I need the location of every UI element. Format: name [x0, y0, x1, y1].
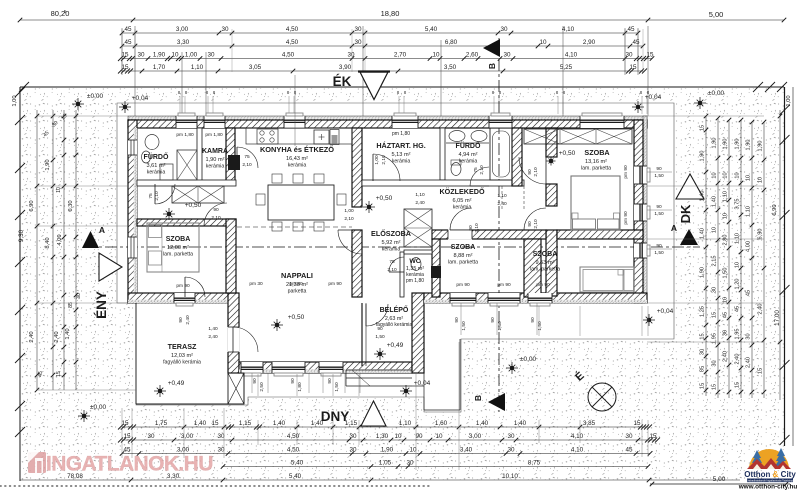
svg-text:2,40: 2,40 [208, 334, 218, 340]
svg-text:+0,50: +0,50 [288, 314, 305, 321]
top dimension row 1 [122, 32, 638, 34]
svg-text:2,40: 2,40 [29, 331, 35, 342]
svg-text:30: 30 [625, 433, 633, 440]
svg-text:80,20: 80,20 [51, 9, 70, 18]
bottom dimension row 5 [20, 479, 740, 481]
svg-text:90: 90 [178, 317, 184, 323]
svg-text:15: 15 [700, 333, 706, 339]
outer wall top [128, 116, 647, 120]
svg-text:15: 15 [700, 125, 706, 131]
wall szoba1 left [546, 128, 557, 157]
svg-text:3,00: 3,00 [181, 433, 194, 440]
svg-text:10: 10 [735, 262, 741, 268]
svg-text:2,40: 2,40 [54, 331, 60, 342]
svg-text:kerámia: kerámia [453, 205, 472, 211]
svg-text:75: 75 [244, 154, 250, 160]
svg-text:+0,49: +0,49 [168, 380, 185, 387]
window nappali bottom 1 [241, 362, 263, 373]
svg-text:8,75: 8,75 [528, 460, 541, 467]
svg-text:90: 90 [656, 204, 662, 210]
svg-text:2,10: 2,10 [154, 191, 160, 201]
door szoba4 [185, 277, 205, 297]
svg-text:1,40: 1,40 [194, 420, 207, 427]
svg-text:90: 90 [252, 378, 258, 384]
door hall-nappali [204, 203, 227, 226]
wall konyha right [352, 128, 362, 207]
wall hall-szoba4 [137, 219, 236, 226]
svg-text:45: 45 [625, 447, 633, 454]
svg-text:45: 45 [627, 26, 635, 33]
svg-text:4,10: 4,10 [571, 447, 584, 454]
door haztart [373, 154, 400, 181]
svg-text:10: 10 [171, 52, 179, 59]
svg-text:FÜRDŐ: FÜRDŐ [456, 141, 481, 150]
svg-text:BELÉPŐ: BELÉPŐ [380, 305, 409, 314]
svg-text:1,50: 1,50 [723, 268, 729, 279]
svg-text:4,10: 4,10 [571, 433, 584, 440]
svg-text:15: 15 [712, 312, 718, 318]
svg-text:2,40: 2,40 [415, 200, 425, 206]
svg-text:3,30: 3,30 [177, 39, 190, 46]
window szoba4 bottom [174, 293, 195, 303]
svg-text:1,05: 1,05 [379, 460, 392, 467]
bottom dimension row 1 [122, 426, 648, 428]
opening terasz door in west wall [228, 327, 240, 352]
svg-text:www.otthon-city.hu: www.otthon-city.hu [738, 484, 798, 491]
svg-text:ÉK: ÉK [333, 74, 352, 89]
apron outline right of belepo [423, 373, 425, 410]
svg-text:1,90: 1,90 [735, 139, 741, 150]
svg-text:10: 10 [712, 172, 718, 178]
outer wall nappali bottom [239, 362, 412, 373]
svg-text:±0,00: ±0,00 [708, 90, 725, 97]
svg-text:±0,00: ±0,00 [90, 404, 107, 411]
svg-text:45: 45 [723, 312, 729, 318]
wall szoba1-szoba3 [557, 230, 643, 239]
section marker B top [483, 39, 500, 57]
wall furdo1-kamra [197, 128, 202, 182]
bottom extension lines [121, 408, 123, 458]
svg-text:4,50: 4,50 [286, 39, 299, 46]
terrace outline [135, 303, 137, 404]
furdo1 toilet [142, 151, 151, 163]
left extension lines [37, 115, 128, 117]
svg-text:5,40: 5,40 [289, 473, 302, 480]
svg-text:±0,00: ±0,00 [87, 93, 104, 100]
svg-text:TERASZ: TERASZ [168, 342, 197, 351]
right dim columns [705, 116, 707, 396]
svg-text:3,50: 3,50 [444, 64, 457, 71]
svg-text:B: B [487, 63, 497, 69]
svg-text:30: 30 [221, 26, 229, 33]
svg-text:90: 90 [527, 221, 533, 227]
svg-text:Otthon & City: Otthon & City [744, 470, 796, 479]
window kamra top [204, 116, 225, 128]
svg-text:pm 1,80: pm 1,80 [406, 278, 424, 284]
wall kamra-konyha with flue [226, 128, 235, 182]
svg-text:85: 85 [700, 366, 706, 372]
window haztart top [392, 116, 418, 128]
wall szoba2-szoba3 [524, 239, 541, 297]
svg-text:30: 30 [723, 330, 729, 336]
svg-text:10: 10 [432, 52, 440, 59]
svg-text:15: 15 [56, 371, 62, 377]
top dimension row 2 [122, 45, 643, 47]
svg-text:4,50: 4,50 [287, 447, 300, 454]
svg-text:10: 10 [746, 175, 752, 181]
east symbol E circle [588, 383, 616, 411]
svg-text:KAMRA: KAMRA [202, 148, 228, 155]
svg-text:45: 45 [735, 306, 741, 312]
svg-text:2,10: 2,10 [242, 162, 252, 168]
konyha-nappali open boundary dashed [237, 226, 352, 228]
svg-text:1,50: 1,50 [461, 321, 467, 331]
window szoba4 left [128, 237, 137, 258]
svg-text:SZOBA: SZOBA [584, 148, 609, 157]
svg-text:90: 90 [327, 378, 333, 384]
svg-text:1,25: 1,25 [700, 306, 706, 317]
svg-text:A: A [99, 225, 105, 235]
window szoba1 right upper [634, 166, 647, 184]
svg-text:10,10: 10,10 [502, 473, 518, 480]
svg-text:6,90: 6,90 [29, 200, 35, 211]
wc toilet [411, 258, 421, 271]
direction label DK with triangle [676, 174, 704, 199]
svg-text:+0,50: +0,50 [185, 202, 202, 209]
window nappali bottom 3 [319, 362, 343, 373]
svg-text:1,10: 1,10 [735, 233, 741, 244]
svg-text:30: 30 [712, 287, 718, 293]
svg-text:fagyálló kerámia: fagyálló kerámia [163, 360, 201, 366]
logo ingatlanok.hu watermark [28, 452, 213, 476]
svg-text:30: 30 [700, 349, 706, 355]
outer wall nappali left (terrace side) [228, 293, 239, 373]
svg-text:pm 90: pm 90 [176, 283, 190, 289]
opening kozlekedo dashes [501, 186, 503, 210]
svg-text:1,10: 1,10 [746, 206, 752, 217]
svg-text:3,05: 3,05 [249, 64, 262, 71]
svg-text:lam. parketta: lam. parketta [448, 260, 478, 266]
svg-text:1,50: 1,50 [497, 321, 503, 331]
cleared apron outline [117, 103, 674, 412]
svg-text:10: 10 [723, 297, 729, 303]
svg-text:4,50: 4,50 [282, 52, 295, 59]
svg-text:1,75: 1,75 [155, 420, 168, 427]
svg-text:10: 10 [758, 177, 764, 183]
kitchen sink [314, 130, 329, 144]
svg-text:B: B [473, 395, 483, 401]
furdo1 washing machine [160, 164, 173, 180]
svg-text:1,00: 1,00 [12, 95, 18, 106]
svg-text:3,90: 3,90 [339, 64, 352, 71]
svg-text:90: 90 [527, 169, 533, 175]
bottom dimension row 2 [122, 439, 656, 441]
svg-text:1,40: 1,40 [208, 326, 218, 332]
door szoba3 [524, 208, 546, 230]
svg-text:1,00: 1,00 [374, 155, 380, 165]
svg-text:INGATLANOK.HU: INGATLANOK.HU [46, 453, 213, 476]
door szoba1 [519, 157, 546, 184]
svg-text:2,40: 2,40 [746, 357, 752, 368]
site boundary right corner ticks [753, 82, 763, 92]
left dim line 3 [63, 110, 65, 390]
svg-text:1,50: 1,50 [654, 211, 664, 217]
top dimension row 3 [122, 58, 652, 60]
svg-text:8,88 m²: 8,88 m² [454, 253, 473, 259]
svg-text:2,10: 2,10 [381, 155, 387, 165]
outer wall bottom right wing [424, 293, 647, 303]
direction label ENY with triangle [99, 253, 122, 281]
belepo steps [346, 369, 412, 371]
svg-text:8,40: 8,40 [45, 237, 51, 248]
svg-text:1,00: 1,00 [786, 95, 792, 106]
door belepo-eloszoba [366, 304, 388, 326]
svg-text:30: 30 [354, 39, 362, 46]
svg-text:75: 75 [389, 259, 395, 265]
svg-text:3,40: 3,40 [460, 447, 473, 454]
left dim line 2 [52, 110, 54, 390]
svg-text:16,43 m²: 16,43 m² [286, 156, 308, 162]
svg-text:A: A [671, 223, 677, 233]
szoba4 bed [147, 223, 199, 272]
svg-text:90: 90 [454, 317, 460, 323]
svg-text:3,85: 3,85 [583, 420, 596, 427]
door furdo2 [470, 167, 489, 186]
svg-text:pm 60: pm 60 [289, 281, 303, 287]
svg-text:30: 30 [349, 433, 357, 440]
svg-text:pm 90: pm 90 [623, 211, 629, 225]
svg-text:kerámia: kerámia [392, 159, 411, 165]
svg-text:45: 45 [124, 26, 132, 33]
svg-text:parketta: parketta [288, 289, 307, 295]
svg-text:4,50: 4,50 [286, 26, 299, 33]
svg-text:4,94 m²: 4,94 m² [459, 152, 478, 158]
svg-text:1,50: 1,50 [334, 382, 340, 392]
svg-text:+0,50: +0,50 [376, 195, 393, 202]
site ground stipple [20, 88, 784, 480]
svg-text:45: 45 [38, 371, 44, 377]
svg-text:1,90: 1,90 [381, 447, 394, 454]
window furdo1 top [176, 116, 197, 128]
svg-text:90: 90 [490, 317, 496, 323]
furdo2 bathtub [490, 128, 512, 180]
svg-text:2,10: 2,10 [387, 267, 397, 273]
svg-text:10: 10 [539, 39, 547, 46]
svg-text:1,80: 1,80 [297, 382, 303, 392]
svg-text:6,30: 6,30 [68, 200, 74, 211]
door szoba2 [450, 208, 472, 230]
svg-text:1,90: 1,90 [758, 141, 764, 152]
svg-text:30: 30 [137, 52, 145, 59]
svg-text:KÖZLEKEDŐ: KÖZLEKEDŐ [439, 187, 485, 196]
svg-text:1,40: 1,40 [712, 196, 718, 207]
logo otthon and city [738, 448, 798, 491]
svg-text:kerámia: kerámia [206, 164, 225, 170]
svg-text:kerámia: kerámia [288, 163, 307, 169]
svg-text:15: 15 [121, 52, 129, 59]
svg-text:15: 15 [123, 433, 131, 440]
svg-text:12,00 m²: 12,00 m² [167, 245, 189, 251]
svg-text:kerámia: kerámia [382, 247, 401, 253]
svg-text:75: 75 [473, 167, 479, 173]
svg-text:3,00: 3,00 [469, 433, 482, 440]
outer wall belepo right [412, 293, 424, 373]
svg-text:2,40: 2,40 [735, 354, 741, 365]
svg-text:90: 90 [656, 166, 662, 172]
hall wardrobe crossed boxes [172, 186, 224, 203]
svg-text:ELŐSZOBA: ELŐSZOBA [371, 229, 411, 238]
svg-text:90: 90 [290, 378, 296, 384]
door konyha-nappali [338, 230, 362, 254]
eloszoba wardrobe crossed boxes [404, 209, 432, 247]
furdo1 shower [177, 150, 197, 180]
svg-text:30: 30 [207, 52, 215, 59]
svg-text:15: 15 [629, 64, 637, 71]
svg-text:1,90: 1,90 [746, 140, 752, 151]
svg-text:KONYHA és ÉTKEZŐ: KONYHA és ÉTKEZŐ [260, 145, 334, 154]
svg-text:1,10: 1,10 [497, 193, 507, 199]
svg-text:pm 90: pm 90 [456, 282, 470, 288]
svg-text:1,15: 1,15 [239, 420, 252, 427]
dining table with chairs [268, 185, 334, 220]
wall eloszoba-szoba2 with flue [432, 239, 440, 297]
right extension lines [647, 115, 764, 117]
svg-text:30: 30 [503, 52, 511, 59]
svg-text:90: 90 [530, 317, 536, 323]
svg-text:75: 75 [148, 193, 154, 199]
svg-text:ÉNY: ÉNY [94, 291, 109, 319]
wall haztart-furdo2 [440, 128, 445, 180]
kitchen counter [246, 128, 352, 144]
svg-text:1,10: 1,10 [191, 64, 204, 71]
svg-text:WC: WC [409, 258, 420, 265]
svg-text:5,40: 5,40 [291, 460, 304, 467]
svg-text:15: 15 [758, 368, 764, 374]
window szoba2 bottom [450, 293, 476, 303]
svg-text:1,50: 1,50 [375, 334, 385, 340]
svg-text:5,92 m²: 5,92 m² [382, 240, 401, 246]
svg-text:+0,50: +0,50 [559, 150, 576, 157]
svg-text:15: 15 [211, 420, 219, 427]
svg-text:90: 90 [656, 243, 662, 249]
svg-text:12,03 m²: 12,03 m² [171, 353, 193, 359]
svg-text:5,00: 5,00 [713, 476, 726, 483]
window furdo2 top [489, 116, 512, 128]
svg-text:13,16 m²: 13,16 m² [585, 159, 607, 165]
svg-text:DK: DK [678, 204, 693, 223]
svg-text:1,70: 1,70 [153, 64, 166, 71]
site boundary top [20, 86, 784, 88]
extension lines below nappali [251, 373, 253, 393]
section marker A right [680, 229, 698, 245]
svg-text:1,90: 1,90 [45, 159, 51, 170]
bottom dimension row 3 [122, 453, 650, 455]
outer wall right [643, 116, 647, 303]
outer wall left [128, 120, 137, 303]
svg-text:1,90: 1,90 [700, 267, 706, 278]
wall wc [400, 252, 404, 297]
svg-text:5,00: 5,00 [709, 10, 724, 19]
svg-text:Szabadkatalanok Ingatlaniroda: Szabadkatalanok Ingatlaniroda Tatabánya [746, 479, 795, 483]
svg-text:15: 15 [649, 433, 657, 440]
svg-text:1,40: 1,40 [476, 420, 489, 427]
svg-text:2,10: 2,10 [533, 167, 539, 177]
door furdo1 [155, 184, 175, 204]
szoba1 bed [571, 176, 620, 230]
svg-text:2,10: 2,10 [533, 219, 539, 229]
svg-text:2,10: 2,10 [211, 215, 221, 221]
window szoba1 right lower [634, 204, 647, 221]
svg-text:1,00: 1,00 [185, 52, 198, 59]
left dim line 1 [36, 110, 38, 390]
svg-text:30: 30 [712, 360, 718, 366]
wall kozlekedo bottom szoba2 top [432, 230, 546, 239]
svg-text:1,40: 1,40 [65, 328, 71, 339]
svg-text:1,10: 1,10 [723, 191, 729, 202]
svg-text:kerámia: kerámia [459, 159, 478, 165]
window konyha top [284, 116, 305, 128]
svg-text:1,90: 1,90 [723, 139, 729, 150]
svg-text:15: 15 [646, 52, 654, 59]
svg-text:3,61 m²: 3,61 m² [147, 163, 166, 169]
svg-text:15: 15 [735, 382, 741, 388]
svg-text:3,75: 3,75 [735, 199, 741, 210]
svg-text:FÜRDŐ: FÜRDŐ [144, 152, 169, 161]
svg-text:2,10: 2,10 [474, 223, 480, 233]
svg-text:45: 45 [632, 39, 640, 46]
site boundary right [784, 87, 786, 446]
svg-text:lam. parketta: lam. parketta [530, 267, 560, 273]
wall belepo left glazing [361, 303, 363, 366]
svg-text:+0,04: +0,04 [657, 308, 674, 315]
svg-text:30: 30 [347, 52, 355, 59]
section line B vertical [498, 38, 500, 412]
opening szoba2 door jambs [448, 230, 472, 240]
site boundary bottom dashed [0, 485, 430, 487]
svg-text:10: 10 [712, 227, 718, 233]
opening szoba1 door jambs [546, 156, 557, 158]
svg-text:1,30: 1,30 [376, 433, 389, 440]
svg-text:15: 15 [633, 420, 641, 427]
svg-text:30: 30 [349, 447, 357, 454]
svg-text:30: 30 [625, 52, 633, 59]
svg-text:1,50: 1,50 [654, 250, 664, 256]
wall szoba4-nappali [226, 219, 236, 293]
door nappali-terasz [233, 327, 258, 352]
svg-text:+0,04: +0,04 [645, 94, 662, 101]
furdo1 washbasin [145, 135, 159, 150]
svg-text:4,00: 4,00 [746, 241, 752, 252]
svg-text:90: 90 [415, 433, 423, 440]
svg-text:4,10: 4,10 [565, 52, 578, 59]
svg-text:pm 90: pm 90 [623, 165, 629, 179]
svg-text:lam. parketta: lam. parketta [581, 166, 611, 172]
svg-text:2,15: 2,15 [712, 256, 718, 267]
svg-text:lam. parketta: lam. parketta [163, 252, 193, 258]
svg-text:1,40: 1,40 [514, 420, 527, 427]
door konyha upper [237, 147, 258, 168]
svg-text:pm 1,80: pm 1,80 [176, 132, 194, 138]
svg-text:1,90: 1,90 [153, 52, 166, 59]
svg-text:+0,04: +0,04 [132, 95, 149, 102]
svg-text:1,50: 1,50 [537, 321, 543, 331]
wall kozlekedo top [362, 180, 524, 186]
svg-text:1,60: 1,60 [435, 420, 448, 427]
svg-text:15: 15 [121, 64, 129, 71]
svg-text:SZOBA: SZOBA [166, 236, 191, 243]
svg-text:2,10: 2,10 [479, 165, 485, 175]
outer wall bottom left wing [128, 293, 236, 303]
